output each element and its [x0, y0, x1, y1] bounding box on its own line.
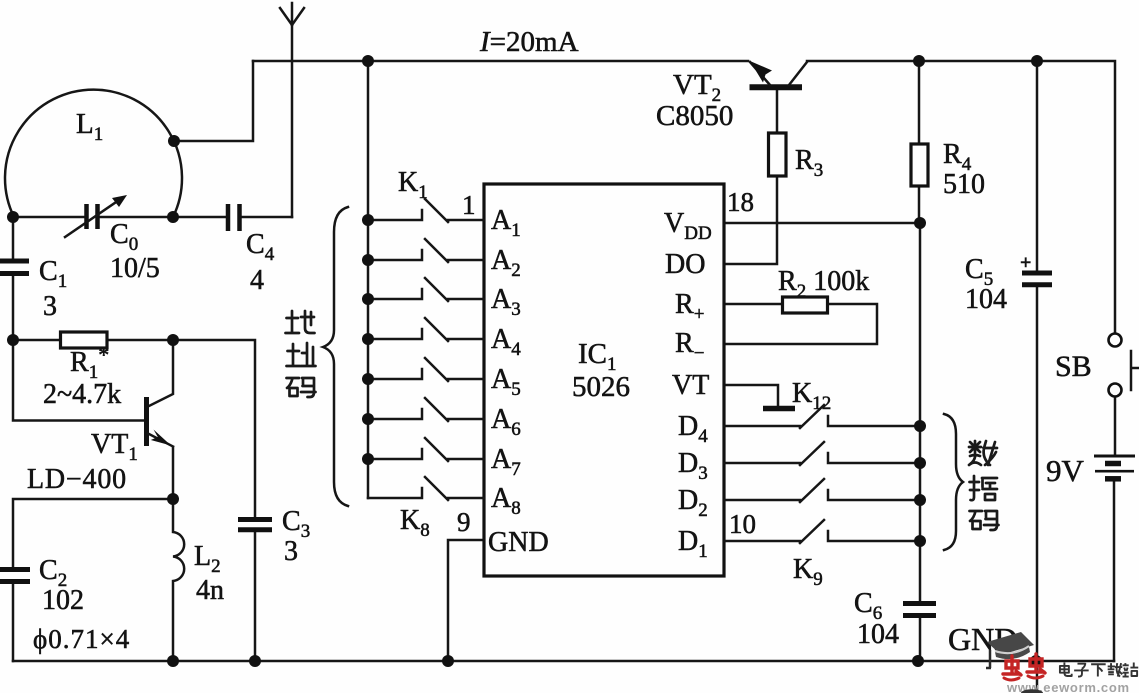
- switch K1: [368, 199, 484, 222]
- ground K12 bar: [763, 406, 795, 412]
- svg-text:510: 510: [943, 169, 985, 200]
- wire top rail V+: [253, 61, 1115, 333]
- char zai: [1108, 663, 1123, 676]
- char xia: [1091, 664, 1106, 676]
- wire bottom ground rail: [13, 660, 1114, 663]
- resistor R2: [783, 297, 828, 313]
- svg-text:3: 3: [284, 536, 298, 567]
- svg-text:10/5: 10/5: [110, 253, 160, 284]
- svg-text:L1: L1: [76, 108, 103, 145]
- node bus A1: [362, 214, 374, 226]
- svg-text:5026: 5026: [572, 371, 630, 403]
- brace address code: [323, 207, 348, 506]
- node rail C5: [1030, 655, 1042, 667]
- svg-text:K8: K8: [400, 505, 430, 541]
- svg-text:IC1: IC1: [578, 338, 617, 375]
- wire VDD pin 18 row: [724, 222, 920, 225]
- char zhan: [1123, 663, 1139, 677]
- node L1 left: [7, 211, 19, 223]
- node D4: [914, 420, 926, 432]
- svg-text:A7: A7: [491, 444, 521, 480]
- wire LC tank row: [13, 216, 292, 219]
- wire SB to battery: [1114, 397, 1117, 454]
- node bus A5: [362, 373, 374, 385]
- brace data code: [944, 414, 963, 550]
- wire R1 row: [13, 340, 255, 661]
- svg-text:ϕ0.71×4: ϕ0.71×4: [33, 624, 130, 654]
- watermark site name CJK dianzixiazaizhan: [1060, 663, 1138, 677]
- node top rail / R4: [913, 55, 925, 67]
- svg-text:+: +: [1020, 252, 1031, 274]
- switch K12 D4: [724, 405, 920, 428]
- capacitor C1: [0, 261, 29, 274]
- node rail L2: [167, 655, 179, 667]
- node bus A2: [362, 254, 374, 266]
- wire VT1 collector: [147, 340, 173, 407]
- char dian: [1060, 663, 1072, 676]
- svg-text:L2: L2: [194, 541, 221, 577]
- wire GND pin 9 to rail: [448, 540, 484, 661]
- node VDD rail: [914, 217, 926, 229]
- node D2: [914, 494, 926, 506]
- svg-text:18: 18: [727, 187, 754, 217]
- svg-text:A2: A2: [491, 245, 521, 281]
- svg-text:10: 10: [729, 509, 756, 539]
- node top rail / C5: [1031, 55, 1043, 67]
- wire VT1 emitter: [172, 447, 175, 499]
- char shu (number): [969, 441, 997, 465]
- svg-text:LD−400: LD−400: [27, 464, 127, 495]
- node D1: [914, 535, 926, 547]
- capacitor C6: [903, 604, 936, 616]
- svg-text:4: 4: [250, 265, 264, 296]
- wire R+ R2 R- loop: [724, 304, 877, 344]
- svg-text:K1: K1: [398, 167, 428, 203]
- char ma (code): [287, 378, 316, 397]
- svg-text:C4: C4: [246, 229, 275, 265]
- watermark bug 1: [1003, 656, 1021, 680]
- wire battery to ground rail: [1113, 481, 1116, 661]
- node rail C3: [249, 655, 261, 667]
- switch K7: [368, 438, 484, 461]
- resistor R4: [911, 144, 928, 186]
- svg-text:9: 9: [457, 507, 471, 537]
- svg-text:9V: 9V: [1046, 453, 1085, 488]
- node D3: [914, 457, 926, 469]
- svg-text:4n: 4n: [196, 575, 224, 606]
- svg-text:102: 102: [42, 585, 84, 616]
- antenna: [280, 3, 304, 217]
- node L1 right / C0: [167, 211, 179, 223]
- label data-code CJK: [969, 441, 999, 530]
- transistor VT1: [144, 397, 149, 446]
- svg-text:A1: A1: [491, 205, 521, 241]
- switch K9 D1: [724, 520, 920, 543]
- svg-text:A3: A3: [491, 284, 521, 320]
- capacitor C5 electrolytic: [1022, 273, 1052, 285]
- svg-text:A5: A5: [491, 364, 521, 400]
- svg-text:VT1: VT1: [91, 429, 138, 465]
- svg-text:I=20mA: I=20mA: [479, 26, 579, 58]
- wire R4 branch: [918, 61, 921, 223]
- watermark logo graduation cap: [986, 632, 1034, 668]
- svg-text:A4: A4: [491, 324, 521, 360]
- svg-text:R2 100k: R2 100k: [778, 266, 869, 302]
- char zhi (site): [287, 343, 316, 366]
- svg-text:A8: A8: [491, 483, 521, 519]
- char zi: [1074, 664, 1089, 677]
- char di (earth): [286, 311, 315, 333]
- node bus A7: [362, 453, 374, 465]
- svg-text:DO: DO: [665, 249, 705, 280]
- svg-text:A6: A6: [491, 404, 521, 440]
- node bus A4: [362, 333, 374, 345]
- watermark dark blot: [1021, 689, 1043, 693]
- svg-text:R−: R−: [675, 328, 704, 364]
- svg-text:R3: R3: [795, 145, 823, 181]
- battery GB 9V: [1094, 455, 1135, 458]
- wire DO to R3: [724, 89, 777, 264]
- switch K2: [368, 239, 484, 262]
- wire C5 branch: [1036, 61, 1039, 693]
- switch K8: [368, 477, 484, 500]
- svg-text:VDD: VDD: [664, 208, 712, 244]
- svg-text:D1: D1: [678, 526, 708, 562]
- svg-text:D2: D2: [678, 485, 708, 521]
- node bus A6: [362, 413, 374, 425]
- switch K5: [368, 358, 484, 381]
- svg-text:VT: VT: [672, 370, 709, 401]
- wire right data bus: [919, 223, 922, 661]
- svg-text:R+: R+: [675, 289, 704, 325]
- svg-text:K12: K12: [792, 378, 831, 414]
- node R1 right / collector: [167, 334, 179, 346]
- switch K6: [368, 398, 484, 421]
- transistor VT2: [750, 84, 803, 90]
- svg-text:104: 104: [857, 619, 899, 650]
- node rail C6: [912, 655, 924, 667]
- node rail GND9: [442, 655, 454, 667]
- svg-text:SB: SB: [1055, 350, 1092, 383]
- wire L1 top-right to rail: [174, 61, 253, 141]
- capacitor C2: [0, 570, 30, 582]
- wire emitter row to C2: [13, 499, 173, 661]
- resistor R3: [769, 133, 787, 176]
- node top rail / bus: [362, 55, 374, 67]
- capacitor C0 variable: [87, 204, 98, 229]
- watermark bug 2: [1027, 654, 1045, 678]
- switch K3: [368, 278, 484, 301]
- svg-text:C1: C1: [39, 256, 67, 292]
- wire C1 branch: [12, 217, 15, 340]
- char ma (code): [970, 511, 999, 530]
- svg-text:D3: D3: [678, 448, 708, 484]
- switch D3: [724, 442, 920, 465]
- node bus A3: [362, 293, 374, 305]
- node L1 tap: [168, 135, 180, 147]
- pushbutton SB: [1109, 334, 1122, 347]
- capacitor C3: [238, 520, 272, 530]
- capacitor C4: [228, 204, 240, 231]
- svg-text:GND: GND: [488, 527, 549, 558]
- svg-text:104: 104: [965, 284, 1007, 315]
- char ju (occupy): [970, 476, 998, 500]
- svg-text:3: 3: [43, 291, 57, 322]
- svg-text:K9: K9: [793, 554, 823, 590]
- inductor L2: [173, 499, 184, 661]
- node emitter / L2: [167, 493, 179, 505]
- switch K4: [368, 318, 484, 341]
- IC U1 box 5026: [484, 184, 724, 576]
- svg-text:1: 1: [462, 190, 476, 220]
- resistor R1: [61, 332, 108, 348]
- svg-text:D4: D4: [678, 411, 708, 447]
- inductor L1 loop antenna coil: [5, 90, 182, 217]
- wire VT pin to ground stub: [724, 385, 778, 406]
- switch D2: [724, 479, 920, 502]
- label address-code CJK: [286, 311, 316, 397]
- svg-text:C8050: C8050: [656, 100, 733, 132]
- wire VT1 base: [13, 340, 144, 421]
- wire left address bus: [367, 61, 370, 498]
- node R1 left: [7, 334, 19, 346]
- svg-text:2~4.7k: 2~4.7k: [43, 379, 121, 410]
- svg-text:C0: C0: [110, 219, 138, 255]
